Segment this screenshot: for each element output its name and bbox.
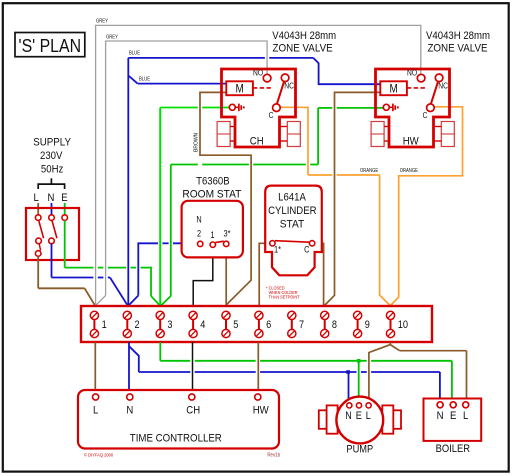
svg-text:BLUE: BLUE <box>129 51 141 57</box>
svg-text:V4043H 28mm: V4043H 28mm <box>426 30 490 42</box>
wire brown cyl stat C to terminal 8 <box>315 243 324 305</box>
svg-text:PUMP: PUMP <box>346 443 373 455</box>
wire grey HW NO <box>96 25 421 305</box>
svg-text:NO: NO <box>407 69 417 78</box>
wire grey CH NO <box>96 41 268 305</box>
svg-text:9: 9 <box>365 319 370 331</box>
svg-text:'S' PLAN: 'S' PLAN <box>19 36 82 56</box>
svg-text:5: 5 <box>233 319 238 331</box>
svg-text:THAN SETPOINT: THAN SETPOINT <box>269 295 300 300</box>
label zone valve 2 <box>426 30 490 55</box>
wire blue room stat 2 <box>137 242 197 244</box>
svg-text:1*: 1* <box>274 245 281 255</box>
svg-text:NC: NC <box>438 81 448 90</box>
svg-text:10: 10 <box>398 319 408 331</box>
supply terminal labels L N E <box>34 192 68 204</box>
svg-text:TIME CONTROLLER: TIME CONTROLLER <box>130 433 222 445</box>
wire orange CH valve <box>280 107 391 305</box>
wire black terminal 4 to controller CH <box>192 342 194 393</box>
wire brown supply L lead <box>37 203 39 215</box>
pump <box>319 397 401 456</box>
room stat T6360B <box>182 201 243 258</box>
zone valve CH <box>217 69 300 148</box>
wire brown terminal 10 to pump L and boiler L <box>369 342 467 402</box>
wire blue supply N lead <box>51 203 53 215</box>
svg-text:ORANGE: ORANGE <box>400 168 419 174</box>
svg-text:NC: NC <box>284 81 294 90</box>
cylinder stat footnote <box>266 285 300 299</box>
wire brown room stat 3 to terminal 5 <box>225 247 227 305</box>
svg-text:Rev1b: Rev1b <box>267 452 280 458</box>
terminal strip 1-10 <box>81 306 432 342</box>
svg-text:BLUE: BLUE <box>139 76 151 82</box>
wire green supply E lead <box>64 203 66 215</box>
svg-text:N: N <box>126 405 133 417</box>
svg-text:ZONE VALVE: ZONE VALVE <box>427 43 487 55</box>
svg-text:2: 2 <box>197 229 201 239</box>
wire brown HW M <box>325 92 380 305</box>
svg-text:M: M <box>235 82 243 96</box>
svg-text:T6360B: T6360B <box>196 176 230 188</box>
room stat labels <box>182 176 241 201</box>
wire orange HW valve <box>391 107 463 306</box>
svg-text:N: N <box>48 192 55 204</box>
svg-text:L: L <box>463 410 468 422</box>
svg-text:L641A: L641A <box>278 192 306 204</box>
svg-text:C: C <box>423 111 428 120</box>
svg-text:1: 1 <box>210 230 214 240</box>
label blue 1 <box>129 51 141 57</box>
svg-text:CH: CH <box>186 405 200 417</box>
title box 'S' PLAN <box>15 33 85 57</box>
svg-text:STAT: STAT <box>280 218 305 230</box>
svg-text:230V: 230V <box>40 150 63 162</box>
wire blue CH M branch <box>128 76 227 306</box>
svg-text:3*: 3* <box>224 229 231 239</box>
svg-text:L: L <box>366 410 371 422</box>
svg-text:ZONE VALVE: ZONE VALVE <box>273 43 333 55</box>
label orange 2 <box>400 168 419 174</box>
svg-text:E: E <box>356 410 362 422</box>
wire black room stat 1 to terminal 4 <box>193 247 213 305</box>
svg-text:L: L <box>34 192 39 204</box>
svg-text:CH: CH <box>250 136 264 148</box>
label blue 2 <box>139 76 151 82</box>
label grey 2 <box>106 35 118 41</box>
label grey 1 <box>96 19 108 25</box>
wire green CH valve earth <box>160 108 229 306</box>
label zone valve 1 <box>272 30 336 55</box>
svg-text:N: N <box>196 215 201 225</box>
svg-text:2: 2 <box>135 319 140 331</box>
svg-text:E: E <box>61 192 68 204</box>
time controller <box>78 390 280 458</box>
svg-text:C: C <box>304 245 310 255</box>
wire blue supply N to terminal 2 <box>52 244 128 305</box>
svg-text:3: 3 <box>167 319 172 331</box>
wire brown terminal 6 to controller HW <box>257 342 259 393</box>
svg-text:1: 1 <box>102 319 107 331</box>
wire blue valves N <box>128 58 380 305</box>
svg-text:HW: HW <box>253 405 269 417</box>
wire green supply E to terminal 3 <box>65 220 160 305</box>
label orange 1 <box>360 168 379 174</box>
wire brown CH M <box>200 92 251 305</box>
svg-text:7: 7 <box>299 319 304 331</box>
supply text <box>33 137 71 176</box>
svg-text:L: L <box>93 405 98 417</box>
svg-text:ORANGE: ORANGE <box>360 168 379 174</box>
svg-text:BROWN: BROWN <box>194 132 200 152</box>
svg-text:8: 8 <box>332 319 337 331</box>
svg-text:CYLINDER: CYLINDER <box>268 205 316 217</box>
svg-text:E: E <box>450 410 457 422</box>
svg-text:BOILER: BOILER <box>436 443 470 455</box>
svg-text:© DIYFAQ 2000: © DIYFAQ 2000 <box>84 451 113 458</box>
svg-text:N: N <box>345 410 352 422</box>
svg-text:SUPPLY: SUPPLY <box>33 137 71 149</box>
svg-text:GREY: GREY <box>96 19 108 25</box>
svg-text:ROOM STAT: ROOM STAT <box>182 189 241 201</box>
wire brown cyl stat 1 to terminal 6 <box>259 243 270 305</box>
supply bracket <box>38 178 64 189</box>
wire blue terminal 2 to controller N, pump N, boiler N <box>129 342 440 402</box>
wire brown terminal 1 to controller L <box>94 342 96 393</box>
svg-text:GREY: GREY <box>106 35 118 41</box>
svg-text:6: 6 <box>266 319 271 331</box>
wire brown supply L to terminal 1 <box>38 256 94 305</box>
svg-text:HW: HW <box>403 136 419 148</box>
label brown (rotated) <box>194 132 200 152</box>
svg-text:V4043H 28mm: V4043H 28mm <box>272 30 336 42</box>
supply isolator switch <box>26 208 79 260</box>
wire green HW valve earth <box>161 108 385 306</box>
svg-text:C: C <box>269 111 274 120</box>
svg-text:M: M <box>389 82 397 96</box>
svg-text:4: 4 <box>200 319 205 331</box>
svg-text:NO: NO <box>253 69 263 78</box>
svg-text:N: N <box>437 410 444 422</box>
wire green terminal 3 to pump E and boiler E <box>160 342 452 402</box>
cylinder stat L641A <box>265 186 322 276</box>
boiler <box>424 399 482 456</box>
zone valve HW <box>371 69 454 148</box>
svg-text:50Hz: 50Hz <box>41 164 64 176</box>
